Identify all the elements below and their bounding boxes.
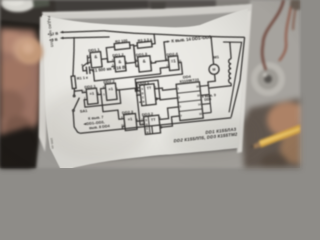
wire R3 left lead xyxy=(134,45,139,62)
arrow +5V xyxy=(60,36,64,39)
hand with pencil bottom right xyxy=(0,0,300,168)
wire clock branch to DD3.2 xyxy=(137,94,144,124)
node R2-R3-DD1.2out xyxy=(134,61,136,63)
wire DD2.4 output clock xyxy=(134,62,184,95)
logic gate DD2.2 xyxy=(105,83,117,100)
wire +12V rail xyxy=(63,13,245,56)
wire motor to +12V rail xyxy=(211,37,214,64)
arrow +12V xyxy=(59,30,63,33)
arrow to pin14 xyxy=(167,40,170,43)
wire rail2 to R1 column xyxy=(69,37,78,75)
wire C1 bottom feedback xyxy=(90,62,161,81)
wire right border to motor xyxy=(223,37,253,117)
logic gate DD1.2 xyxy=(114,56,126,72)
wire DD3.2 Q to DD4 in3 xyxy=(158,107,180,120)
wire R3 right lead to +5V rail xyxy=(151,34,155,44)
wire motor bottom to bus xyxy=(207,74,215,85)
schematic drawing on paper (rotated) xyxy=(30,2,264,165)
main paper sheet xyxy=(0,0,300,168)
wire DD3.2 D input xyxy=(140,119,144,122)
wire DD2.1 input xyxy=(74,90,86,94)
arrow ground label xyxy=(83,123,86,126)
logic gate DD1.1 xyxy=(90,51,102,67)
wire DD4 outputs bus xyxy=(200,84,208,87)
node Qbar xyxy=(159,97,161,99)
wire feedback up to DD2.4 input xyxy=(160,67,170,74)
logic gate DD1.3 xyxy=(137,55,151,71)
wire DD3.1 S stub xyxy=(138,86,140,88)
node motor rail xyxy=(210,36,212,38)
flip-flop DD3.2 xyxy=(143,115,160,134)
capacitor C1 xyxy=(85,66,88,74)
background desk scene xyxy=(0,0,300,168)
wire ground rail xyxy=(80,117,231,134)
switch SA1 xyxy=(73,95,75,97)
wire DD2.1 output xyxy=(96,88,106,95)
wire DD3.1 Qbar to DD4 in2 xyxy=(155,98,157,100)
wire DD2.3 output xyxy=(136,120,139,122)
inductor L winding xyxy=(226,58,233,83)
logic gate DD2.3 xyxy=(124,113,137,130)
wire DD1.2 output xyxy=(125,62,135,63)
wire DD2.2 output to DD3.1 xyxy=(116,87,140,93)
wire R1 to SA1 xyxy=(73,88,75,95)
wire DD1.1 inputs xyxy=(87,55,89,64)
node clock branch xyxy=(136,94,138,96)
motor M1 xyxy=(208,63,219,74)
wire +5V rail xyxy=(63,33,110,42)
wire C1 top xyxy=(82,62,88,70)
node DD2.4 tie xyxy=(165,59,167,61)
wire node B to DD1.3 xyxy=(135,60,138,62)
wire R2 left lead xyxy=(106,47,116,62)
wire DD3.1 Q to DD4 in1 xyxy=(154,86,176,91)
resistor R2 xyxy=(114,42,130,50)
sheet behind xyxy=(0,0,300,168)
fingertip over paper edge xyxy=(0,0,300,168)
wire DD2.4 input tie to +5V xyxy=(164,41,169,60)
node R2 left xyxy=(107,61,109,63)
wire DD1.3 output xyxy=(150,60,168,63)
wire DD2.3 input 2 from ground xyxy=(122,126,125,129)
wire R2 right lead xyxy=(130,44,136,62)
wire latch feedback xyxy=(83,90,120,107)
node latch xyxy=(118,89,120,91)
wire Qbar to D feedback xyxy=(136,80,159,101)
flip-flop DD3.1 xyxy=(140,83,157,105)
wire DD3.2 R to ground xyxy=(151,126,154,134)
wire coil bottom to bus xyxy=(208,83,231,88)
resistor R1 xyxy=(71,76,76,89)
node R1-DD2.1 xyxy=(73,90,75,92)
node coil rail xyxy=(229,41,231,43)
node DD2.3 out xyxy=(139,120,141,122)
wire DD1.1 output to DD1.2 xyxy=(101,58,114,63)
wire DD1.2 input 2 xyxy=(111,65,115,67)
wire SA1 to ground xyxy=(72,111,80,134)
logic gate DD2.1 xyxy=(86,88,98,104)
wire DD3.1 R stub xyxy=(139,101,141,103)
driver IC DD4 xyxy=(176,82,203,121)
wire DD3.2 Qbar to DD4 in4 xyxy=(160,126,162,128)
resistor R3 xyxy=(137,41,152,48)
wire coil top to rail xyxy=(229,42,231,58)
node R3 rail2 xyxy=(153,33,155,35)
node rail2-R1 xyxy=(73,37,75,39)
finger bottom left xyxy=(0,0,300,168)
wire DD2.3 input 1 xyxy=(101,92,124,121)
vignette xyxy=(0,0,300,168)
soft focus overlay xyxy=(0,0,300,168)
node DD4 bus xyxy=(207,84,209,86)
logic gate DD2.4 xyxy=(168,55,179,70)
